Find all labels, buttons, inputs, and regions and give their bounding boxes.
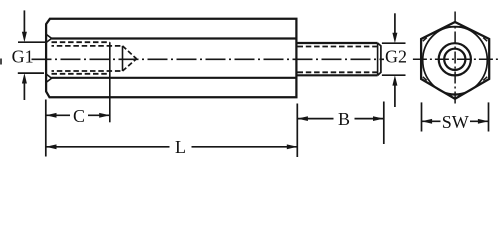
hex flat edge line bottom [51,77,296,79]
C dimension line [46,114,110,116]
stud thread minor hidden line top [298,46,378,48]
G2 extension line bottom [382,74,406,76]
L dimension line [46,146,298,148]
internal thread minor dia hidden line bottom [52,70,123,72]
svg-text:G1: G1 [12,47,34,67]
hexagon end view [421,22,489,99]
stud thread minor hidden line bottom [298,71,378,73]
G2 arrow down [394,13,396,34]
stud circle inner [444,49,465,70]
svg-text:C: C [73,106,85,126]
internal thread minor dia hidden line top [52,45,123,47]
stud end face [378,43,381,75]
svg-text:SW: SW [442,112,469,132]
B right extension line [383,102,385,145]
end view horizontal centerline [413,58,498,60]
svg-text:L: L [175,137,186,157]
G2 arrow up [394,84,396,107]
G1 arrow up [23,83,25,100]
stud chamfer start line [377,43,379,75]
G1 extension line bottom [18,72,44,74]
SW extension line left [421,102,423,131]
thread depth line / C extension line [109,42,111,122]
drill point cone upper [123,46,137,59]
left extension line below body [45,100,47,157]
countersink chamfer bottom [46,74,51,82]
internal thread major dia hidden line bottom [52,73,110,75]
countersink chamfer top [46,34,51,42]
hex corner chamfer chords [448,26,462,28]
drill point cone lower [123,59,137,71]
middle extension line below body right edge [296,104,298,158]
drill hole end line [122,46,124,71]
hex flat edge line top [51,37,296,39]
standoff body outline [46,19,296,98]
stud circle outer [439,43,471,75]
hex chamfer circle [423,27,488,95]
internal thread major dia hidden line top [52,41,110,43]
svg-text:B: B [338,109,350,129]
end view vertical centerline [454,12,456,106]
SW extension line right [488,102,490,131]
SW dimension line [422,120,489,122]
G1 arrow down [23,10,25,33]
scan artifact left edge [0,59,2,65]
G2 extension line top [382,42,406,44]
stud top line [296,42,377,44]
stud bottom line [296,74,377,76]
G1 extension line top [18,41,46,43]
B dimension line [297,118,383,120]
svg-text:G2: G2 [385,46,407,66]
main centerline [32,58,385,60]
